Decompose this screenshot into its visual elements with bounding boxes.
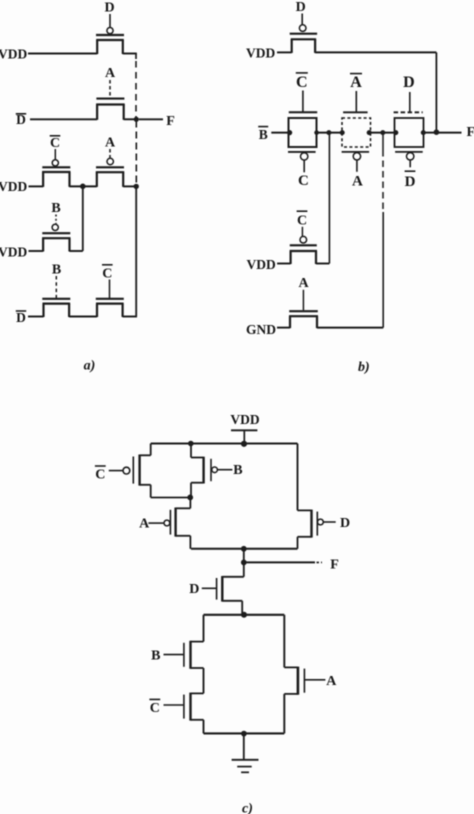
svg-text:VDD: VDD [230, 412, 259, 427]
svg-text:B: B [151, 649, 160, 664]
svg-text:A: A [105, 135, 116, 150]
svg-text:D: D [340, 516, 350, 531]
svg-text:VDD: VDD [246, 46, 275, 61]
svg-text:C: C [297, 213, 307, 228]
svg-text:A: A [298, 276, 309, 291]
svg-text:A: A [326, 674, 337, 689]
svg-text:D: D [405, 174, 416, 190]
svg-text:VDD: VDD [247, 257, 276, 272]
svg-text:C: C [298, 173, 309, 189]
svg-text:F: F [166, 114, 175, 129]
svg-text:A: A [350, 74, 362, 91]
svg-text:A: A [105, 66, 116, 81]
svg-text:C: C [95, 467, 105, 482]
svg-text:c): c) [242, 802, 253, 814]
svg-text:b): b) [358, 360, 370, 375]
svg-text:D: D [189, 582, 199, 597]
svg-text:F: F [330, 557, 339, 572]
svg-text:A: A [352, 174, 363, 190]
svg-text:a): a) [84, 359, 96, 374]
svg-text:VDD: VDD [0, 47, 27, 62]
svg-text:VDD: VDD [0, 179, 27, 194]
svg-text:GND: GND [246, 322, 276, 337]
svg-text:B: B [259, 127, 268, 142]
svg-text:B: B [51, 201, 60, 216]
svg-text:D: D [296, 0, 306, 15]
svg-text:D: D [403, 74, 415, 91]
svg-text:C: C [150, 701, 160, 716]
svg-text:F: F [467, 125, 474, 140]
svg-text:A: A [139, 517, 150, 532]
svg-text:D: D [16, 310, 26, 325]
svg-text:C: C [102, 266, 112, 281]
svg-text:B: B [52, 263, 61, 278]
svg-text:C: C [296, 74, 308, 91]
svg-text:VDD: VDD [0, 245, 27, 260]
svg-text:B: B [233, 463, 242, 478]
svg-text:D: D [104, 1, 114, 16]
svg-text:C: C [50, 136, 60, 151]
